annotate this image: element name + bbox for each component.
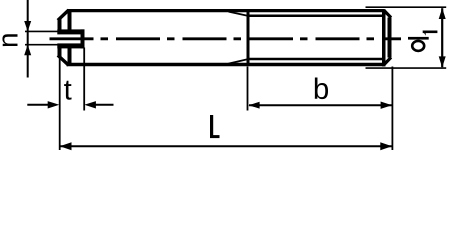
dimension t: left tail line — [27, 104, 48, 106]
dimension d1: bottom arrowhead (points down) — [439, 56, 446, 67]
dimension b: left arrowhead (points left) — [248, 102, 259, 109]
right end face — [388, 18, 392, 58]
dimension L: right arrowhead (points right) — [380, 142, 392, 150]
thread runout bottom — [229, 59, 248, 63]
dimension d1: line vertical — [441, 8, 443, 67]
dimension t: left arrowhead (points right) — [48, 101, 60, 108]
dimension t: left extension line (also L) — [59, 57, 61, 151]
thread minor diameter top — [247, 15, 384, 18]
slot top edge (thick inside body) — [57, 29, 84, 34]
centerline (dash-dot axis) — [50, 37, 402, 40]
right chamfer edge line — [382, 9, 386, 66]
thread runout top — [229, 12, 248, 16]
label n (rotated) — [2, 34, 17, 46]
dimension b: line — [249, 104, 392, 106]
dimension t: right tail line — [95, 104, 114, 106]
left end face (slotted, interrupted by slot) — [58, 19, 62, 32]
dimension t: right arrowhead (points left) — [84, 101, 96, 108]
right bottom chamfer — [384, 57, 391, 64]
right top chamfer — [384, 10, 391, 17]
dimension t: right extension line — [83, 48, 85, 111]
slot depth line — [81, 29, 85, 48]
dimension d1: top arrowhead (points up) — [439, 8, 446, 19]
label t — [64, 81, 71, 100]
left chamfer edge line — [68, 10, 72, 32]
dimension L: line — [60, 145, 391, 147]
thread minor diameter bottom — [247, 58, 384, 61]
dimension b: left extension line — [247, 67, 249, 111]
thread start line — [247, 10, 250, 66]
dimension d1: top extension line — [366, 6, 447, 8]
dimension n: dimension line vertical — [27, 0, 29, 78]
dimension L: left arrowhead (points left) — [60, 142, 72, 150]
screw body bottom outline — [67, 63, 385, 66]
dimension L: right extension line (shared with b) — [391, 67, 393, 151]
label d1 (rotated, d = stem + bowl, subscript 1) — [408, 31, 437, 51]
dimension n: upper arrowhead (points down) — [24, 21, 31, 31]
slot bottom edge (thick inside body) — [57, 43, 84, 48]
slot bottom extension line — [25, 44, 58, 46]
dimension n: lower arrowhead (points up) — [24, 45, 31, 56]
left bottom chamfer — [58, 55, 69, 65]
dimension d1: bottom extension line — [366, 67, 447, 69]
label L — [210, 115, 220, 138]
dimension b: right arrowhead (points right) — [381, 102, 392, 109]
slot top extension line — [25, 30, 58, 32]
left top chamfer — [58, 10, 69, 20]
screw body top outline — [67, 9, 385, 12]
label b — [315, 78, 328, 100]
